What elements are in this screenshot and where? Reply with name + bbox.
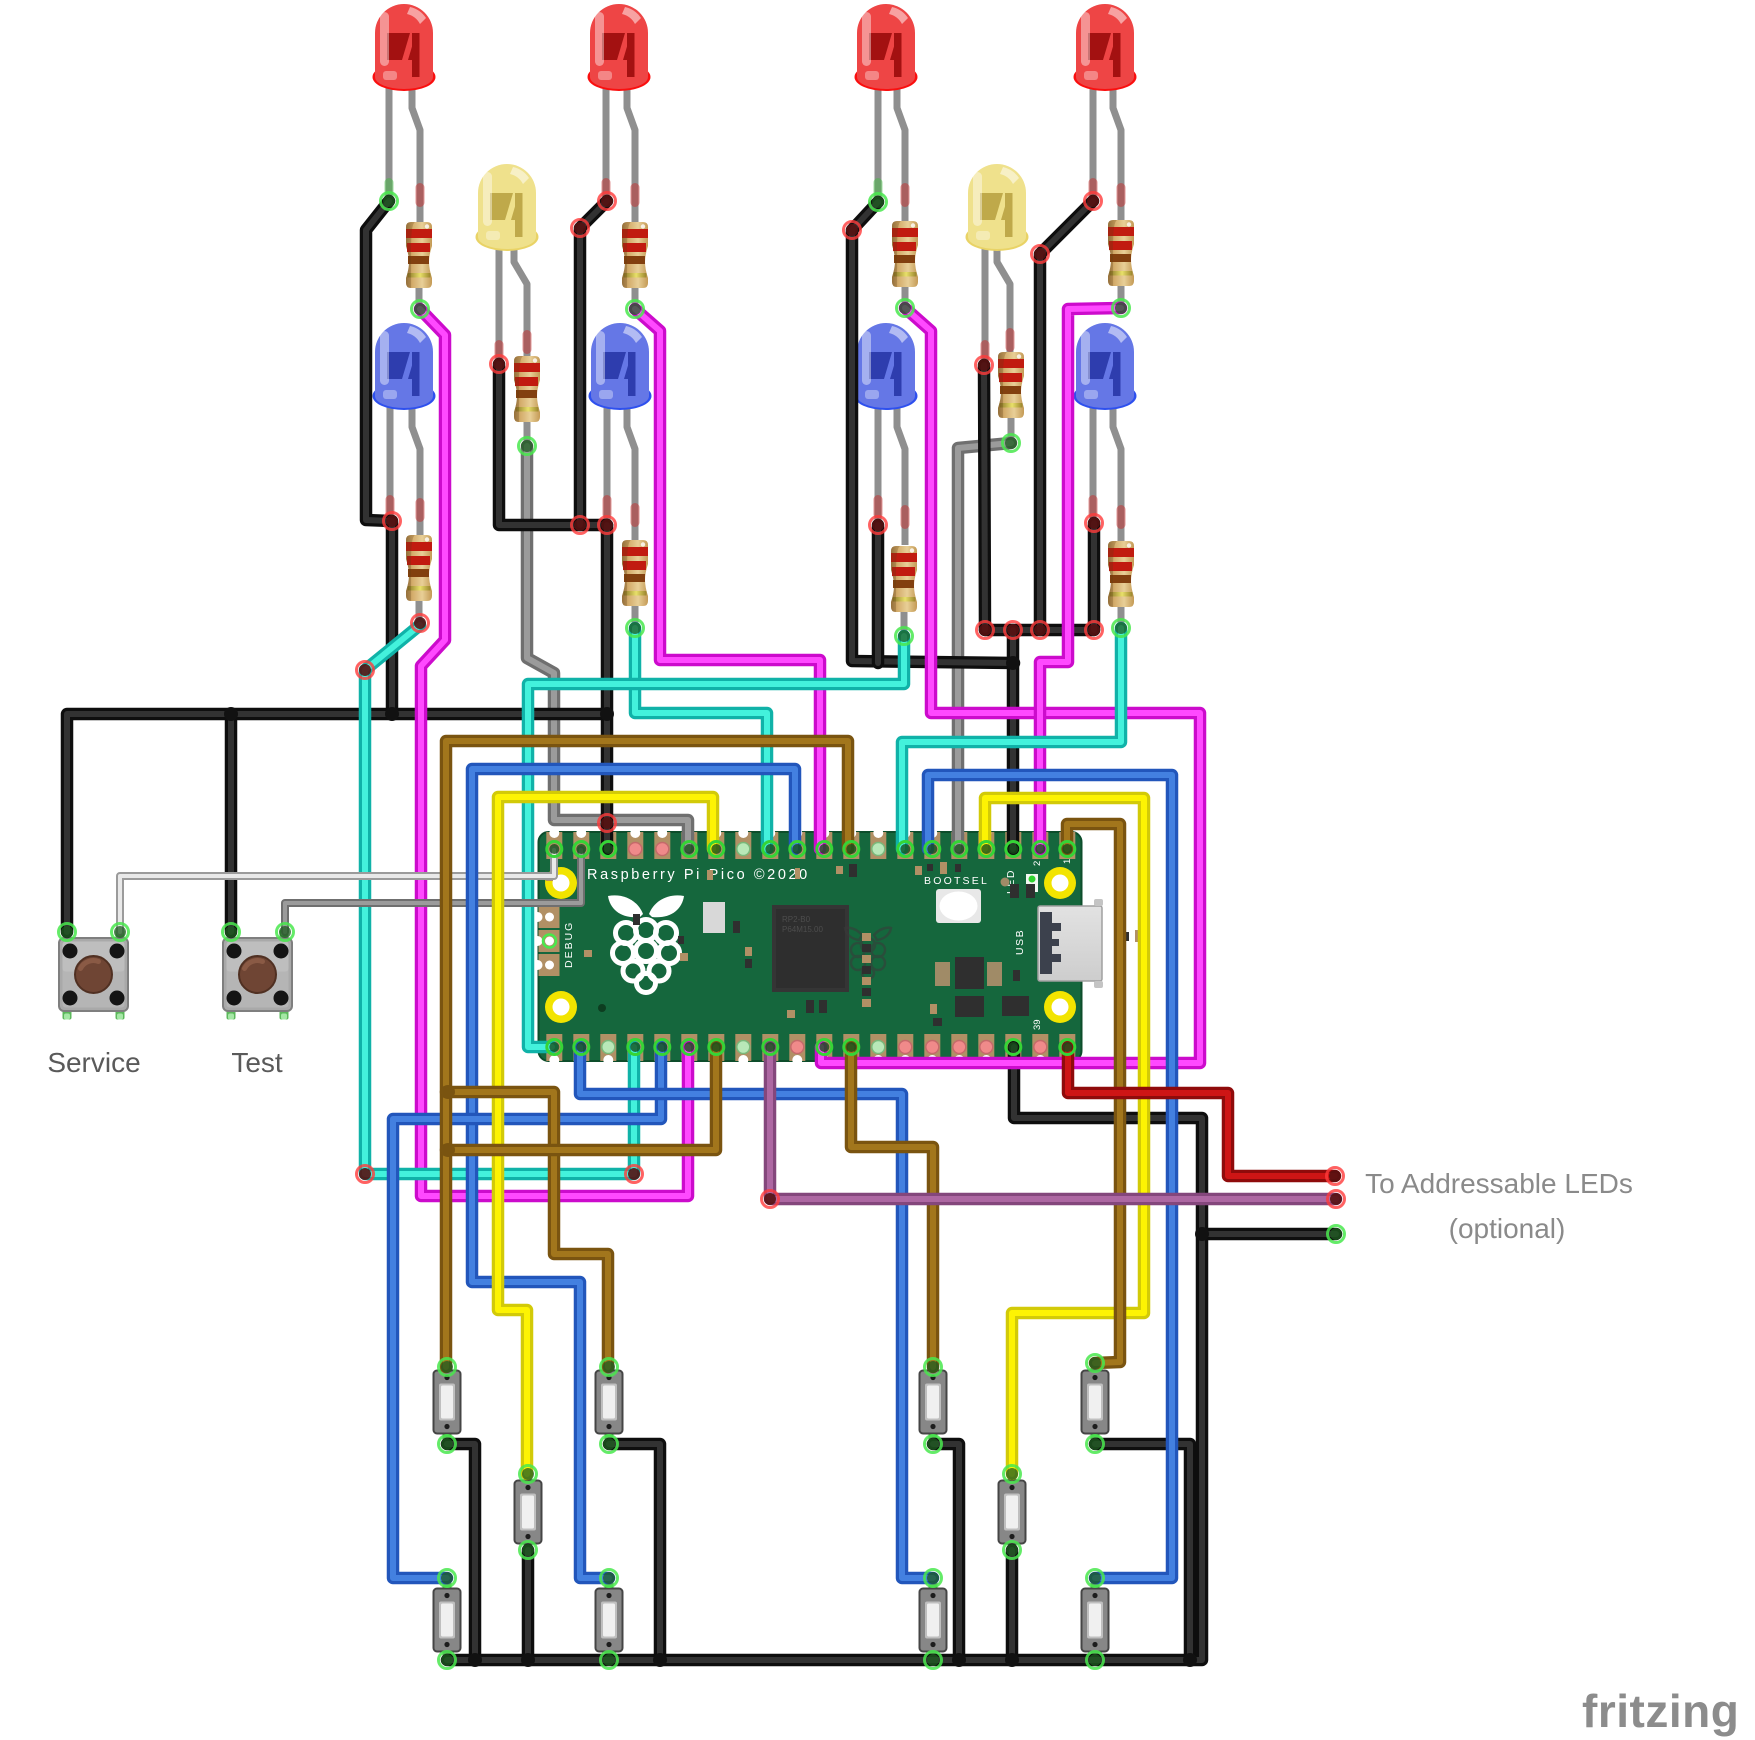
wire black LED D2 cathode (580, 201, 607, 525)
resistor R2 220ohm (622, 222, 648, 288)
wire black yellow2 anode link (984, 365, 985, 630)
svg-text:2: 2 (1032, 861, 1043, 866)
wire brown pad12b to S3 (851, 1047, 933, 1367)
wire black Test branch (225, 714, 238, 932)
resistor R7 220ohm (406, 535, 432, 601)
LED D9 blue (855, 323, 918, 410)
LED D1 red (373, 4, 436, 91)
wire cyan R7 to pad4 bottom (365, 625, 634, 1174)
resistor R3 220ohm (892, 221, 918, 287)
LED D10 blue (1074, 323, 1137, 410)
wire cyan R10 to pad14 top (902, 628, 1121, 849)
svg-text:P64M15.00: P64M15.00 (782, 925, 823, 934)
wire black button bus (67, 714, 607, 932)
wire blue pad2 to S9 (580, 1047, 933, 1578)
LED D8 blue (589, 323, 652, 410)
LED D4 red (1074, 4, 1137, 91)
wire brown branch to S2 (446, 1092, 608, 1367)
wire brown pad7 to bus (446, 1047, 716, 1150)
wire black right ring bus (985, 624, 1094, 637)
wire cyan R9 to pad1 bottom (528, 636, 904, 1047)
resistor R5 220ohm (514, 356, 540, 422)
resistor R10 220ohm (1108, 541, 1134, 607)
svg-text:fritzing: fritzing (1582, 1685, 1739, 1737)
wire magenta R2 to pad11 top (635, 309, 820, 849)
resistor R9 220ohm (891, 546, 917, 612)
switch S4 (1082, 1361, 1109, 1443)
svg-text:BOOTSEL: BOOTSEL (924, 875, 989, 887)
wire black to pad3 (601, 525, 614, 849)
svg-text:Raspberry Pi Pico ©2020: Raspberry Pi Pico ©2020 (587, 867, 810, 883)
pushbutton Test (223, 930, 292, 1020)
Raspberry Pi Pico U1 (533, 828, 1143, 1065)
wire blue pad5 to S7 (393, 1047, 661, 1578)
wire gray yellow2 cathode to pad16 (958, 443, 1011, 849)
wire red VCC addressable (1068, 1047, 1335, 1176)
switch S8 (596, 1579, 623, 1661)
wire brown pad20 to S4 (1067, 824, 1120, 1363)
wire magenta R4 to pad19 top (1040, 308, 1121, 849)
switch S5 (515, 1471, 542, 1553)
svg-text:1: 1 (1062, 859, 1073, 864)
svg-text:DEBUG: DEBUG (563, 921, 575, 968)
svg-text:To Addressable LEDs: To Addressable LEDs (1365, 1168, 1633, 1199)
lead solder markers (385, 178, 1126, 529)
LED D6 yellow (966, 164, 1029, 251)
LED and resistor leads (389, 75, 1121, 638)
wire brown pad12 to S1 (446, 741, 848, 1367)
resistor R4 220ohm (1108, 220, 1134, 286)
green connection points (59, 193, 1345, 1669)
LED D3 red (855, 4, 918, 91)
wire black S2 to bus (609, 1444, 660, 1660)
switch S10 (1082, 1579, 1109, 1661)
wire lightgray Service to pad1 (120, 850, 554, 932)
pico pad connection rings (547, 842, 1075, 1055)
wire junctions (224, 656, 1209, 1667)
wire gray Test to pad2 (285, 850, 581, 932)
svg-text:39: 39 (1032, 1019, 1043, 1030)
svg-text:Test: Test (231, 1047, 283, 1078)
wire magenta R1 to pad6 bottom (420, 309, 688, 1196)
wire blue pad10 to S8 (472, 769, 795, 1578)
LED D7 blue (373, 323, 436, 410)
wire magenta R3 to pad11 bottom (821, 308, 1200, 1063)
wire gray yellow1 cathode to pad6 (527, 446, 688, 849)
switch S2 (596, 1361, 623, 1443)
switch S6 (999, 1471, 1026, 1553)
switch S7 (434, 1579, 461, 1661)
wire black to pad18 (1007, 630, 1020, 849)
wire cyan R8 to pad9 top (635, 628, 767, 849)
wire black LED D9 cathode (872, 525, 885, 663)
wire yellow pad7 to S5 (498, 797, 713, 1474)
wire purple data addressable (770, 1047, 1336, 1199)
switch S1 (434, 1361, 461, 1443)
wire black LED D3 cathode (852, 202, 1014, 663)
wire yellow pad17 to S6 (985, 798, 1144, 1474)
resistor R8 220ohm (622, 540, 648, 606)
resistor R1 220ohm (406, 222, 432, 288)
switch S3 (920, 1361, 947, 1443)
wire blue pad15 to S10 (928, 775, 1172, 1578)
wire black LED D1 cathode (366, 201, 392, 714)
svg-text:RP2-B0: RP2-B0 (782, 915, 811, 924)
wire black ground bus (447, 1047, 1202, 1660)
wire black yellow1 anode link (499, 364, 607, 525)
wire black S1 to bus (447, 1444, 475, 1660)
wire black LED D10 cathode (1088, 523, 1101, 630)
svg-text:USB: USB (1014, 929, 1026, 955)
red connection points (357, 193, 1345, 1208)
wire black S3 to bus (933, 1444, 959, 1660)
wire black to addressable gnd (1202, 1228, 1336, 1241)
LED D2 red (588, 4, 651, 91)
wire black S4 to bus (1095, 1444, 1190, 1660)
pushbutton Service (59, 930, 128, 1020)
svg-text:Service: Service (47, 1047, 140, 1078)
wire black LED D4 cathode (1040, 201, 1093, 630)
LED D5 yellow (476, 164, 539, 251)
wire black S6 to bus (1006, 1550, 1019, 1660)
wire black S5 to bus (522, 1550, 535, 1660)
svg-text:(optional): (optional) (1449, 1213, 1566, 1244)
resistor R6 220ohm (998, 352, 1024, 418)
switch S9 (920, 1579, 947, 1661)
